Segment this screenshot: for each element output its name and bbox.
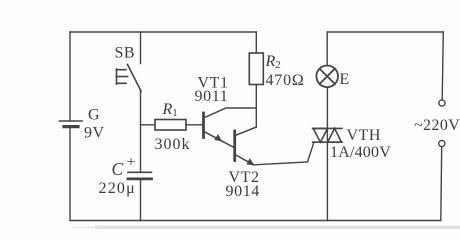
- svg-text:R2: R2: [265, 53, 281, 71]
- svg-text:+: +: [127, 154, 136, 171]
- svg-text:E: E: [340, 71, 350, 88]
- scan artifact grey band: [95, 226, 460, 229]
- AC terminal upper: [439, 100, 445, 106]
- svg-text:~220V: ~220V: [414, 117, 460, 134]
- wire: switch branch lower to capacitor: [140, 91, 142, 172]
- pushbutton SB actuator: [117, 69, 128, 84]
- svg-text:G: G: [88, 107, 100, 124]
- wire: R1 right lead to VT1 base: [186, 124, 202, 126]
- svg-text:470Ω: 470Ω: [266, 72, 305, 89]
- svg-text:1A/400V: 1A/400V: [330, 144, 391, 161]
- wire: R1 left lead: [141, 124, 156, 126]
- pushbutton SB blade: [128, 65, 142, 92]
- wire: left bus lower (battery negative lead): [69, 128, 71, 221]
- wire: bottom bus: [70, 220, 441, 222]
- svg-text:C: C: [112, 159, 124, 179]
- wire: capacitor to bottom bus: [140, 180, 142, 221]
- resistor R1 300k: [155, 120, 186, 131]
- wire: top bus of left loop: [70, 31, 256, 33]
- wire: right bus upper: [442, 32, 443, 100]
- svg-text:220μ: 220μ: [99, 180, 136, 197]
- svg-text:SB: SB: [115, 45, 136, 62]
- capacitor C 220u: [128, 172, 152, 179]
- transistor VT2 9014: [235, 127, 257, 165]
- svg-text:VTH: VTH: [347, 127, 381, 144]
- svg-text:300k: 300k: [155, 136, 191, 153]
- transistor VT1 9011: [204, 108, 257, 147]
- wire: lamp to triac and bottom bus: [326, 87, 328, 220]
- resistor R2 470ohm: [249, 53, 263, 85]
- svg-text:R1: R1: [162, 101, 178, 119]
- svg-text:9V: 9V: [84, 125, 105, 142]
- lamp E: [316, 66, 338, 88]
- wire: left bus upper (battery positive lead): [69, 32, 71, 121]
- battery G 9V: [60, 121, 83, 127]
- wire: VT2 emitter to triac gate: [253, 143, 314, 165]
- triac VTH: [313, 128, 342, 142]
- AC terminal lower: [439, 140, 445, 146]
- wire: switch branch upper: [140, 32, 142, 64]
- svg-text:9014: 9014: [226, 183, 260, 200]
- wire: R2 lower lead (collector node): [255, 85, 257, 128]
- svg-text:9011: 9011: [195, 88, 229, 105]
- wire: top bus of right loop: [327, 31, 443, 33]
- wire: R2 branch from top bus: [255, 32, 257, 53]
- wire: lamp branch upper: [326, 32, 328, 66]
- wire: right bus lower: [440, 147, 443, 221]
